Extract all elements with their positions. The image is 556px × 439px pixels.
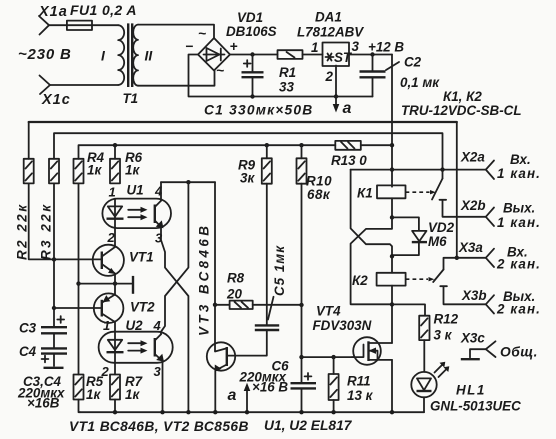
optocoupler U2 xyxy=(99,318,173,379)
wire X1c to transformer xyxy=(50,84,118,86)
svg-text:68к: 68к xyxy=(307,187,331,202)
svg-text:X2a: X2a xyxy=(460,150,485,165)
terminal X3a xyxy=(458,240,541,272)
svg-text:X1c: X1c xyxy=(41,92,71,108)
fuse FU1 0,2A xyxy=(67,2,137,30)
node C2 top xyxy=(370,52,374,56)
svg-text:К1, К2: К1, К2 xyxy=(443,89,482,104)
relay K2 coil xyxy=(352,273,406,288)
node netA xyxy=(186,180,190,184)
wire secondary bottom to bridge xyxy=(138,71,215,86)
svg-text:М6: М6 xyxy=(428,234,447,249)
arrow a (bottom) xyxy=(228,383,251,412)
regulator DA1 L7812ABV xyxy=(297,10,364,85)
wire gate xyxy=(302,356,354,358)
node sensor line / R4 column xyxy=(76,281,80,285)
svg-text:Вых.: Вых. xyxy=(503,201,535,216)
wire U2 pin2 to R7 xyxy=(114,363,116,375)
transformer T1 primary winding I xyxy=(101,25,124,85)
svg-text:1 кан.: 1 кан. xyxy=(497,215,541,230)
resistor R3 22k xyxy=(39,159,60,260)
svg-text:а: а xyxy=(228,387,237,404)
node R10 top xyxy=(299,143,303,147)
node VT2 base junction xyxy=(52,306,56,310)
node C drain junction xyxy=(390,302,394,306)
node X3a xyxy=(455,256,459,260)
svg-text:+: + xyxy=(230,39,238,54)
wire bus1 left drop to R2 xyxy=(28,122,30,159)
svg-text:U2: U2 xyxy=(126,318,144,333)
svg-text:1: 1 xyxy=(109,185,116,200)
svg-text:3 к: 3 к xyxy=(434,328,453,343)
node C1 top xyxy=(250,52,254,56)
svg-text:1к: 1к xyxy=(125,387,140,402)
svg-text:~230 В: ~230 В xyxy=(18,46,72,63)
capacitor C1 330mk x 50V xyxy=(204,55,313,118)
svg-text:U1: U1 xyxy=(127,183,144,198)
svg-text:1к: 1к xyxy=(125,163,140,178)
wire R2 bottom to VT1 base xyxy=(29,183,102,259)
capacitor C5 1mk xyxy=(228,184,287,356)
svg-text:X2b: X2b xyxy=(460,198,486,213)
svg-text:VT4: VT4 xyxy=(316,304,341,319)
svg-text:DA1: DA1 xyxy=(315,10,342,25)
svg-text:Т1: Т1 xyxy=(123,91,139,106)
svg-text:×16 В: ×16 В xyxy=(252,380,288,395)
node emitters junction xyxy=(113,281,117,285)
svg-text:R12: R12 xyxy=(434,312,459,327)
wire VT2 base xyxy=(54,307,102,309)
svg-text:+12 В: +12 В xyxy=(368,40,404,55)
wire K2 coil bottom xyxy=(391,286,393,305)
svg-text:33: 33 xyxy=(279,80,294,95)
svg-text:20: 20 xyxy=(226,287,242,302)
resistor R9 3k xyxy=(238,145,272,185)
sensor plate E1 xyxy=(132,276,134,294)
resistor R13 0 xyxy=(331,141,392,168)
wire P2 crossing: A to node C xyxy=(351,217,392,304)
wire bus3 xyxy=(79,145,336,159)
node R11 top xyxy=(331,355,335,359)
resistor R2 22k xyxy=(15,159,34,260)
svg-text:X3c: X3c xyxy=(460,331,485,346)
svg-text:TRU-12VDC-SB-CL: TRU-12VDC-SB-CL xyxy=(401,103,522,118)
node R6 top xyxy=(113,143,117,147)
svg-text:~: ~ xyxy=(216,63,224,78)
svg-text:VD2: VD2 xyxy=(428,220,455,235)
bottom ground rail xyxy=(80,411,424,413)
svg-text:2 кан.: 2 кан. xyxy=(496,302,541,317)
wire R1 to DA1 xyxy=(303,54,323,56)
terminal X1c xyxy=(40,76,71,109)
svg-text:R3 22к: R3 22к xyxy=(39,202,54,260)
wire secondary top to bridge xyxy=(138,25,214,38)
wire U2 pin4 jog xyxy=(160,332,162,335)
wire K1 coil bottom xyxy=(391,198,393,217)
svg-text:С1 330мк×50В: С1 330мк×50В xyxy=(204,103,313,118)
svg-text:FDV303N: FDV303N xyxy=(313,318,372,333)
svg-text:2 кан.: 2 кан. xyxy=(496,257,541,272)
node X2a / +12V column xyxy=(390,167,394,171)
relay K1 coil xyxy=(357,185,406,200)
svg-text:1 кан.: 1 кан. xyxy=(497,166,541,181)
wire crossing: netA to U2 pin4 xyxy=(161,182,188,332)
terminal X3b xyxy=(461,288,541,317)
svg-text:4: 4 xyxy=(153,318,162,333)
svg-text:VT3 ВС846В: VT3 ВС846В xyxy=(197,223,212,336)
svg-text:U1, U2 EL817: U1, U2 EL817 xyxy=(264,418,353,433)
svg-text:−: − xyxy=(185,39,193,54)
wire VT4 source to rail xyxy=(391,360,393,412)
svg-text:3к: 3к xyxy=(240,171,255,186)
node B K2 top xyxy=(390,254,394,258)
wire +12V down right side xyxy=(391,55,393,187)
terminal X1a xyxy=(38,4,68,35)
wire VT4 drain up xyxy=(391,304,393,343)
node pin2/rail xyxy=(334,94,338,98)
svg-text:3: 3 xyxy=(154,364,162,379)
K1 actuator dashed xyxy=(406,191,430,193)
LED HL1 xyxy=(411,362,521,414)
transistor VT3 xyxy=(197,223,236,413)
svg-text:~: ~ xyxy=(198,26,206,41)
wire U1 pin4 up to netA xyxy=(160,182,162,201)
wire U2 pin3 to rail xyxy=(162,361,164,412)
terminal X2b xyxy=(460,198,541,230)
capacitor C3 xyxy=(19,316,67,348)
transistor VT2 xyxy=(94,284,155,332)
wire R10 column down to C6 xyxy=(301,184,303,383)
node A K1 bottom xyxy=(390,215,394,219)
transformer core xyxy=(128,23,132,87)
resistor R5 1k xyxy=(74,374,104,402)
resistor R8 20 xyxy=(213,271,304,310)
wire DA1 out +12V xyxy=(349,54,392,56)
node R3 junction VT1 base xyxy=(52,257,56,261)
resistor R12 3k xyxy=(419,312,458,343)
resistor R6 1k xyxy=(110,150,143,183)
capacitor C2 0,1mk xyxy=(360,55,441,97)
optocoupler U1 xyxy=(102,183,171,246)
svg-text:2: 2 xyxy=(101,364,110,379)
capacitor C6 220mk x16V xyxy=(239,359,317,413)
svg-text:С3: С3 xyxy=(19,321,37,336)
svg-text:VT1: VT1 xyxy=(129,250,154,265)
resistor R4 1k xyxy=(74,150,105,183)
wire R5 bottom to rail xyxy=(79,400,81,413)
transistor VT4 FDV303N xyxy=(313,304,393,365)
wire crossing: U1 pin3 to ground rail xyxy=(161,227,188,412)
svg-text:R8: R8 xyxy=(227,271,245,286)
svg-text:FU1 0,2 A: FU1 0,2 A xyxy=(70,2,137,18)
wire R12 to HL1 xyxy=(423,340,425,372)
svg-text:R1: R1 xyxy=(279,65,296,80)
terminal X3c xyxy=(460,331,538,360)
svg-text:2: 2 xyxy=(325,69,334,84)
svg-text:R2 22к: R2 22к xyxy=(15,202,30,260)
svg-text:C2: C2 xyxy=(404,55,422,70)
svg-text:VT1 ВС846В, VT2 ВС856В: VT1 ВС846В, VT2 ВС856В xyxy=(69,419,249,434)
terminal X2a xyxy=(460,150,541,182)
K2 contact blade xyxy=(433,258,486,305)
svg-text:R13 0: R13 0 xyxy=(331,153,367,168)
ground arrow a (top) xyxy=(333,97,352,118)
svg-text:1: 1 xyxy=(311,40,318,55)
wire node C to R12 xyxy=(392,304,425,315)
svg-text:Общ.: Общ. xyxy=(500,345,538,360)
svg-text:II: II xyxy=(145,49,154,64)
transformer T1 secondary winding II xyxy=(133,25,153,86)
wire bus2 xyxy=(54,133,443,169)
wire P1 crossing: X2a col to node B xyxy=(351,170,392,257)
resistor R10 68k xyxy=(297,145,333,202)
wire X3a line xyxy=(457,257,486,259)
svg-text:а: а xyxy=(343,100,352,117)
svg-text:L7812ABV: L7812ABV xyxy=(297,25,364,40)
svg-text:VD1: VD1 xyxy=(237,10,263,25)
svg-text:К2: К2 xyxy=(352,273,368,288)
wire netA down to VT3 collector column xyxy=(214,182,216,305)
K2 actuator dashed xyxy=(406,278,428,280)
wire netA horizontal xyxy=(161,181,215,183)
wire X2a line xyxy=(351,169,486,171)
svg-text:X3a: X3a xyxy=(458,240,483,255)
svg-text:13 к: 13 к xyxy=(347,388,374,403)
svg-text:1к: 1к xyxy=(87,163,102,178)
chassis bar below C4 xyxy=(44,367,64,369)
wire X1a to transformer xyxy=(49,24,118,26)
node gate wire junction xyxy=(299,355,303,359)
svg-text:С4: С4 xyxy=(19,344,37,359)
K1 contact blade xyxy=(432,170,486,217)
node K1 contact common xyxy=(440,167,444,171)
node C1 bottom xyxy=(250,94,254,98)
svg-text:X3b: X3b xyxy=(461,288,487,303)
svg-text:1к: 1к xyxy=(86,387,101,402)
svg-text:1: 1 xyxy=(103,318,110,333)
wire sensor line xyxy=(79,283,132,285)
resistor R1 33 xyxy=(278,50,303,94)
wire bus1 (top long wire) xyxy=(29,121,457,123)
svg-text:Вх.: Вх. xyxy=(510,152,531,167)
rail nodes xyxy=(113,410,117,414)
svg-text:×16В: ×16В xyxy=(27,396,60,411)
capacitor C4 xyxy=(19,344,67,366)
wire bridge plus to R1 xyxy=(230,54,278,56)
svg-text:R11: R11 xyxy=(347,374,371,389)
svg-text:ST: ST xyxy=(334,50,353,65)
svg-text:DB106S: DB106S xyxy=(226,24,277,39)
resistor R7 1k xyxy=(110,374,143,402)
svg-text:0,1 мк: 0,1 мк xyxy=(400,75,440,90)
wire K2 coil top xyxy=(391,256,393,273)
svg-text:HL1: HL1 xyxy=(456,383,486,398)
diode VD2 M6 xyxy=(392,217,455,255)
wire bus1 right drop to X3a xyxy=(456,122,458,258)
svg-text:3: 3 xyxy=(352,39,360,54)
wire R7 bottom xyxy=(114,400,116,413)
wire bridge minus to lower rail xyxy=(189,55,373,97)
DA1 pin2 stem xyxy=(335,66,337,97)
wire R6 top xyxy=(114,145,116,159)
resistor R11 13k xyxy=(329,357,374,412)
node R9 top xyxy=(265,143,269,147)
bridge rectifier VD1 xyxy=(185,10,277,78)
wire R4 column down xyxy=(78,183,80,374)
wire R3 column down xyxy=(53,183,55,326)
svg-text:С5 1мк: С5 1мк xyxy=(272,245,287,296)
svg-text:GNL-5013UEC: GNL-5013UEC xyxy=(430,399,521,414)
node R13 right / +12V column xyxy=(390,143,394,147)
transistor VT1 xyxy=(93,228,154,284)
svg-text:К1: К1 xyxy=(357,186,373,201)
svg-text:VT2: VT2 xyxy=(130,300,155,315)
svg-text:X1a: X1a xyxy=(38,4,68,20)
